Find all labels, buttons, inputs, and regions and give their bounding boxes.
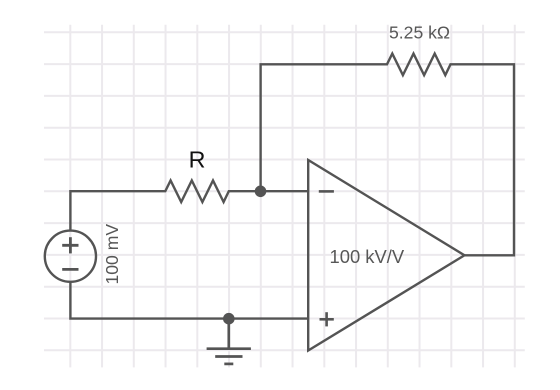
svg-text:100 mV: 100 mV — [102, 224, 122, 285]
svg-text:100 kV/V: 100 kV/V — [330, 246, 405, 267]
svg-text:R: R — [189, 146, 206, 172]
svg-text:5.25 kΩ: 5.25 kΩ — [389, 23, 450, 43]
